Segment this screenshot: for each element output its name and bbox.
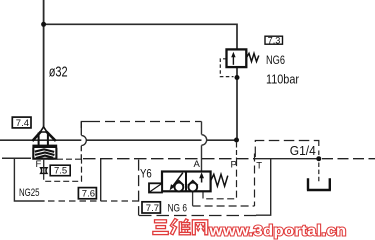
valve left ball [175,183,184,192]
svg-text:NG6: NG6 [266,53,285,67]
relief valve U7.3 arrow [232,55,234,65]
wire: main supply vertical line [43,0,45,128]
P supply dashed drop from junction [236,143,238,159]
wire: left lower line to filter bottom [2,157,31,159]
pilot line: dashed horizontal y=121.5 [81,122,90,132]
dashed box around measuring point 7.5 [44,159,82,181]
filter 7.4 roof right [46,132,55,141]
tank line dashed continuation to right edge [322,158,375,160]
watermark: 三 [153,220,169,235]
measuring point coupling (brackets) [41,168,44,174]
filter 7.4 thick band [32,145,57,148]
tank line solid [255,158,319,160]
valve right up arrow to A [201,177,203,183]
label 7.7 box [142,202,160,213]
valve spring [211,174,228,186]
relief valve U7.3 spring [247,53,259,61]
wire: main horizontal line filter to P junction [0,139,237,141]
svg-text:NG25: NG25 [19,187,40,199]
svg-text:Y6: Y6 [140,166,152,180]
filter 7.4 roof left [32,132,40,141]
valve right seat [188,181,198,186]
label 7.6 box [78,188,96,199]
wire: top horizontal line to relief valve [44,24,237,49]
svg-text:www.3dportal.cn: www.3dportal.cn [208,222,346,239]
left enclosure 7.6 solid left edge [14,158,44,201]
filter 7.4 lower box [32,148,57,159]
watermark: 网 [192,220,208,235]
svg-text:G1/4: G1/4 [290,143,316,158]
left enclosure right edge solid [100,159,102,201]
svg-text:P: P [231,159,237,170]
svg-text:T: T [256,161,262,172]
svg-text:ø32: ø32 [49,64,68,80]
svg-text:A: A [194,159,201,170]
manifold boundary dashed y=158.7 [83,158,255,160]
watermark: 维 [170,219,190,235]
tank drop dashed [318,163,320,184]
valve left seat [174,181,184,186]
svg-text:7.5: 7.5 [54,166,67,177]
pilot line: A-port vertical with hop over main line [201,122,203,135]
left enclosure 7.6 bottom dashes [48,200,139,202]
valve enclosure left edge dashed [138,160,140,216]
relief valve U7.3 pilot dashed loop [220,59,233,77]
label 7.3 box [265,36,283,44]
svg-text:7.4: 7.4 [16,118,29,129]
svg-text:7.7: 7.7 [146,203,159,214]
drain dashed line y=206 [193,205,255,207]
valve right ball [188,183,197,192]
svg-text:7.6: 7.6 [82,189,95,200]
svg-text:F: F [36,159,42,170]
label 7.5 box [50,165,70,176]
tank symbol [307,178,331,190]
valve 7.7 body [162,172,211,192]
G1/4 dashed box [255,141,318,158]
valve enclosure bottom dashed [139,215,256,217]
relief valve U7.3 body [227,49,247,67]
valve left position diagonal arrow [172,173,183,188]
svg-text:NG 6: NG 6 [168,203,188,215]
solenoid Y6 [149,183,162,192]
inner P dashed box [203,159,237,199]
filter 7.4 inner verticals [38,133,40,146]
wire: relief valve to P junction vertical [236,67,238,141]
svg-text:110bar: 110bar [266,73,299,87]
filter 7.4 apex triangle [40,127,47,132]
dashed vertical x=254.5 [254,154,256,207]
node: tank junction dot [316,156,321,161]
wire: F test point drop [43,159,45,168]
pilot line: dashed vertical at x=81.3 with hop over main line [80,122,82,135]
node: top junction dot [41,22,46,27]
valve underside stub to drain [192,191,194,206]
drain line solid L [256,159,271,216]
node: relief pilot junction dot [235,75,240,80]
filter 7.4 element zigzags [35,149,54,152]
node: P junction dot [234,138,239,143]
label 7.4 box [12,117,31,128]
svg-text:7.3: 7.3 [268,35,281,45]
